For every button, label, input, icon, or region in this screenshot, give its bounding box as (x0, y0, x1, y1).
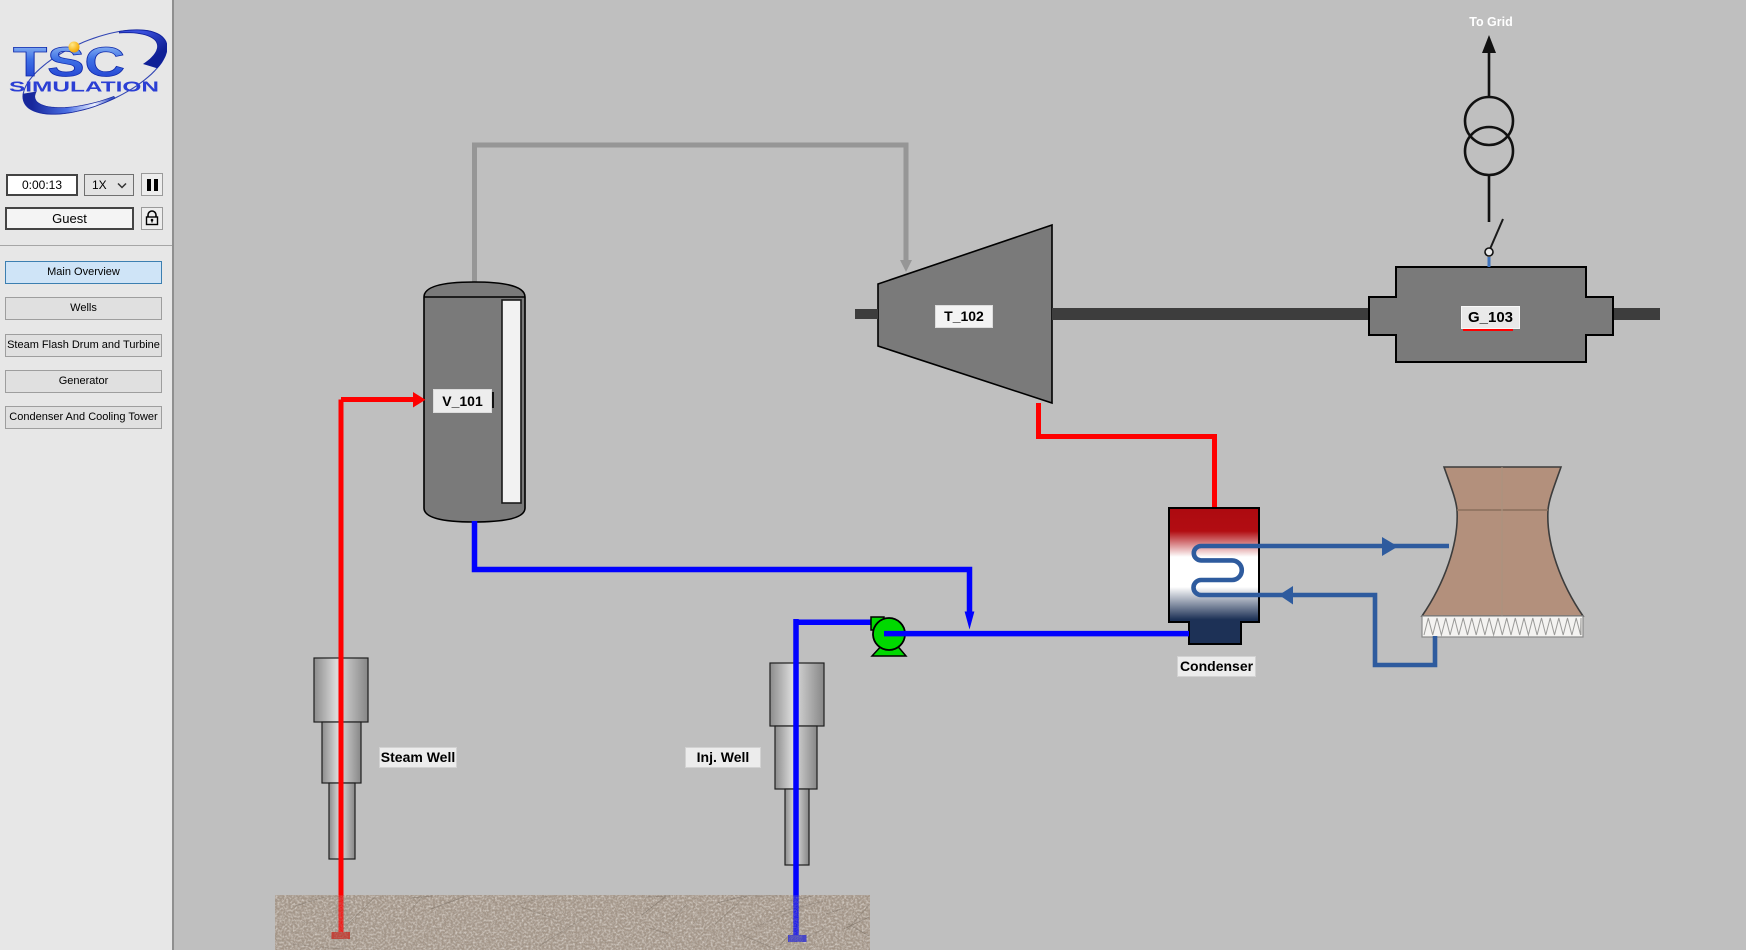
svg-text:SIMULATION: SIMULATION (9, 79, 159, 96)
